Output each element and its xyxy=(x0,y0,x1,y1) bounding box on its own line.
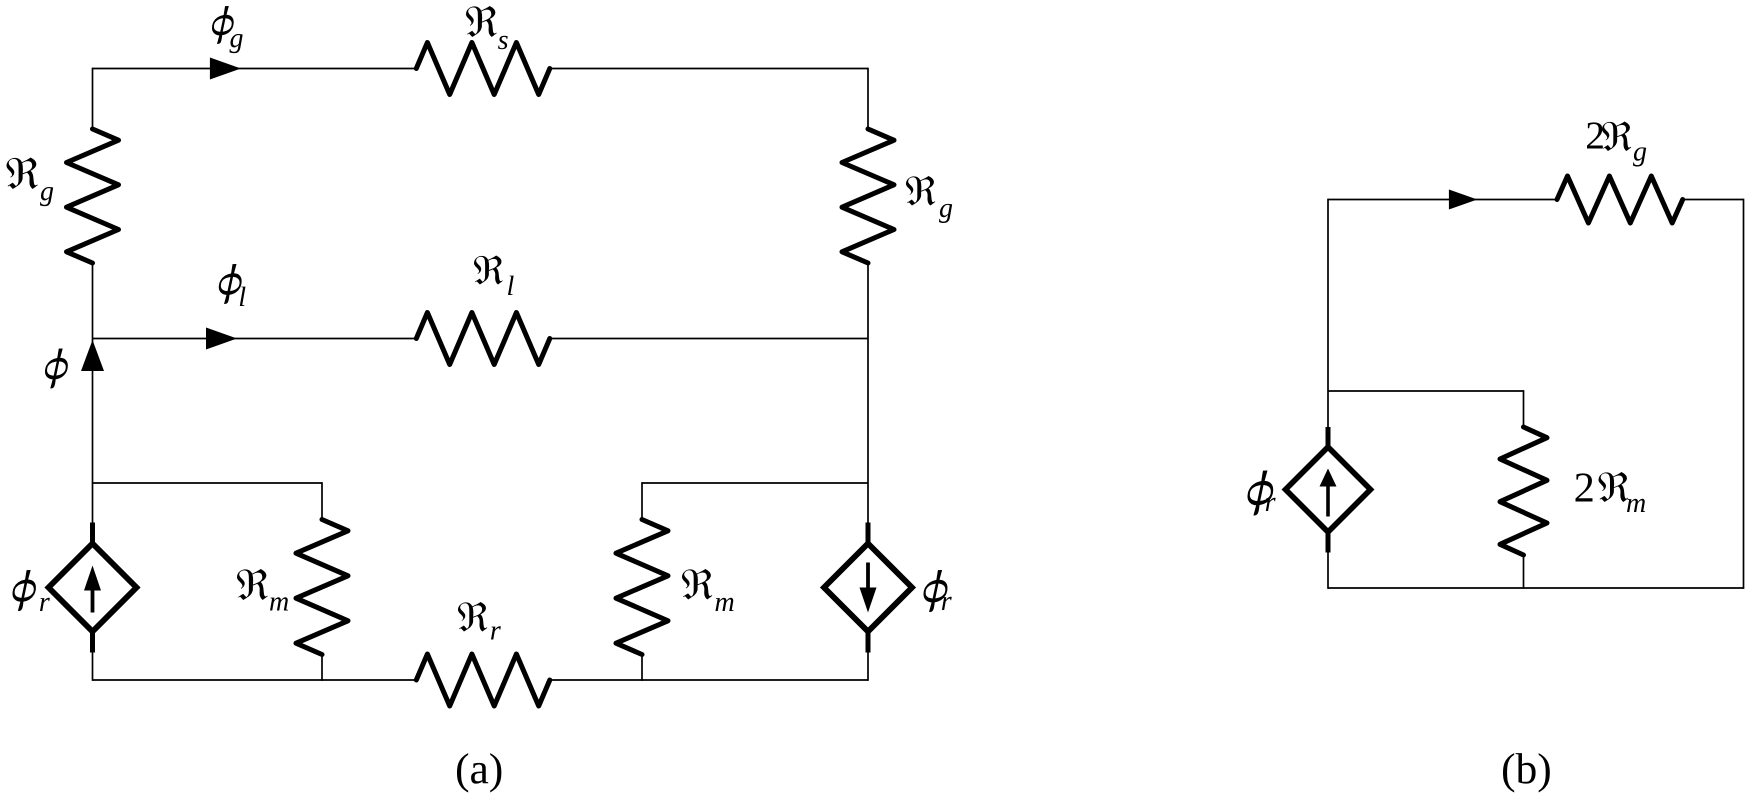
resistor Rm right xyxy=(616,520,668,655)
label Rm right xyxy=(682,569,734,611)
resistor Rg right xyxy=(842,129,894,263)
wire 2Rm branch top lead xyxy=(1523,390,1525,428)
flux source phi_r b diamond xyxy=(1286,447,1371,532)
wire Rm-left branch top lead xyxy=(321,482,323,520)
resistor Rs xyxy=(416,43,550,95)
wire b top-left horizontal xyxy=(1328,199,1559,201)
wire Rm-right branch top lead xyxy=(641,482,643,520)
wire a top-right horizontal xyxy=(548,68,868,70)
wire Rm-left branch bottom lead xyxy=(321,654,323,681)
wire a right vertical lower lead xyxy=(867,652,869,681)
label (b) xyxy=(1503,753,1550,792)
node phi arrow (up arrow at left mid junction) xyxy=(81,340,104,371)
label 2Rm xyxy=(1576,472,1646,512)
label Rm left xyxy=(237,569,288,611)
wire a bottom-left horizontal xyxy=(93,679,419,681)
flux source phi_r b terminal stub bottom xyxy=(1326,531,1331,553)
label phi_g xyxy=(212,6,243,53)
flux source phi_r b terminal stub top xyxy=(1326,427,1331,448)
arrow flux phi_l on mid wire xyxy=(206,328,237,350)
resistor 2Rg xyxy=(1557,176,1683,223)
label Rl xyxy=(474,256,514,296)
wire b left vertical lower lead xyxy=(1327,552,1329,589)
wire Rm-right branch bottom lead xyxy=(641,654,643,681)
label Rg left xyxy=(7,158,54,207)
wire b right vertical xyxy=(1743,199,1745,589)
wire a mid horizontal right xyxy=(548,338,868,340)
resistor Rg left xyxy=(67,129,119,263)
label phi (node flux) xyxy=(45,349,68,389)
flux source phi_r right terminal stub top xyxy=(866,523,871,545)
flux source phi_r b inner up arrow xyxy=(1320,469,1337,517)
resistor 2Rm xyxy=(1500,427,1547,555)
wire b inner horizontal xyxy=(1328,390,1524,392)
resistor Rm left xyxy=(296,520,348,655)
wire a left vertical upper xyxy=(92,68,94,130)
wire a lower-right horizontal xyxy=(642,482,868,484)
wire a top-left horizontal xyxy=(93,68,419,70)
label phi_r b xyxy=(1248,471,1276,516)
label phi_l xyxy=(219,264,246,306)
wire a right vertical upper xyxy=(867,68,869,130)
arrow flux phi_g on top wire xyxy=(210,58,241,80)
wire a bottom-right horizontal xyxy=(548,679,868,681)
flux source phi_r right terminal stub bottom xyxy=(866,631,871,653)
label phi_r left xyxy=(13,570,50,611)
wire a right vertical middle xyxy=(867,262,869,523)
label (a) xyxy=(457,753,501,792)
flux source phi_r left terminal stub top xyxy=(90,523,95,545)
arrow flux on b top wire xyxy=(1449,190,1477,210)
label Rs xyxy=(466,6,508,49)
label Rr xyxy=(458,602,501,640)
wire a lower-left horizontal xyxy=(93,482,323,484)
label phi_r right xyxy=(924,570,952,612)
wire b bottom horizontal xyxy=(1328,587,1744,589)
wire 2Rm branch bottom lead xyxy=(1523,554,1525,589)
wire b left vertical upper xyxy=(1327,199,1329,428)
flux source phi_r left terminal stub bottom xyxy=(90,631,95,653)
label 2Rg xyxy=(1587,122,1646,167)
wire b top-right horizontal xyxy=(1681,199,1744,201)
flux source phi_r right inner down arrow xyxy=(860,563,877,613)
flux source phi_r left inner up arrow xyxy=(84,566,101,613)
wire a left vertical lower lead xyxy=(92,652,94,681)
resistor Rl xyxy=(416,313,550,365)
flux source phi_r left diamond xyxy=(49,544,137,632)
label Rg right xyxy=(906,176,952,223)
wire a mid horizontal left xyxy=(93,338,419,340)
wire a left vertical middle xyxy=(92,262,94,523)
resistor Rr xyxy=(416,654,550,706)
flux source phi_r right diamond xyxy=(824,544,912,632)
